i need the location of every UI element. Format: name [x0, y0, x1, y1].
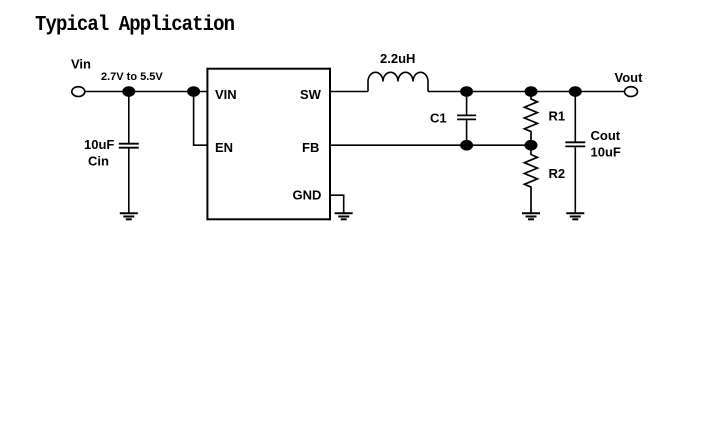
junction node: input rail / EN	[187, 86, 200, 97]
capacitor Cin	[119, 92, 139, 214]
ground (Cout)	[566, 213, 584, 219]
junction node: FB rail / R1-R2	[525, 140, 538, 151]
wire: GND pin to ground	[330, 195, 344, 213]
inductor L1 2.2uH	[368, 72, 428, 91]
svg-text:Cout: Cout	[591, 128, 621, 143]
svg-text:R1: R1	[549, 109, 566, 124]
IC box U1	[207, 69, 330, 220]
capacitor Cout	[565, 92, 585, 214]
svg-text:EN: EN	[215, 140, 233, 155]
svg-text:SW: SW	[300, 87, 322, 102]
ground (R2)	[522, 213, 540, 219]
junction node: output rail / C1 top	[460, 86, 473, 97]
junction node: FB rail / C1 bottom	[460, 140, 473, 151]
wire: output rail from inductor to Vout terminal	[428, 91, 624, 93]
junction node: output rail / R1 top	[525, 86, 538, 97]
wire: input rail from Vin terminal to VIN pin	[84, 91, 207, 93]
ground (GND pin)	[335, 213, 353, 219]
svg-text:2.7V to 5.5V: 2.7V to 5.5V	[101, 71, 163, 83]
terminal Vout (open circle)	[625, 87, 638, 97]
svg-text:GND: GND	[293, 188, 322, 203]
terminal Vin (open circle)	[72, 87, 85, 97]
svg-text:Vin: Vin	[71, 57, 91, 72]
svg-text:Typical Application: Typical Application	[35, 13, 235, 37]
svg-text:10uF: 10uF	[84, 137, 114, 152]
wire: EN drop from input rail junction down and into EN pin	[194, 92, 208, 146]
svg-text:10uF: 10uF	[591, 145, 621, 160]
junction node: input rail / Cin	[122, 86, 135, 97]
svg-text:VIN: VIN	[215, 87, 237, 102]
svg-text:FB: FB	[302, 140, 319, 155]
ground (Cin)	[120, 213, 138, 219]
svg-text:Vout: Vout	[615, 70, 644, 85]
svg-text:Cin: Cin	[88, 154, 109, 169]
resistor R2	[524, 150, 537, 213]
wire: SW pin to inductor	[330, 91, 368, 93]
svg-text:C1: C1	[430, 111, 447, 126]
svg-text:R2: R2	[549, 166, 566, 181]
junction node: output rail / Cout top	[569, 86, 582, 97]
svg-text:2.2uH: 2.2uH	[380, 51, 415, 66]
capacitor C1	[457, 92, 476, 146]
wire: FB rail from FB pin to R1/R2 junction	[330, 144, 531, 146]
resistor R1	[524, 96, 537, 140]
